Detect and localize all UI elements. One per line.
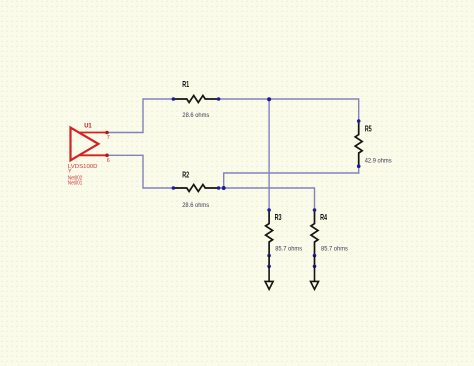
resistor R3 — [266, 210, 273, 256]
op-amp U1 triangle — [71, 128, 99, 161]
wire R4 to ground — [314, 256, 316, 267]
svg-text:R5: R5 — [365, 125, 372, 134]
wire pin7 to bend — [108, 132, 143, 134]
junction node R1 net — [267, 97, 271, 101]
svg-text:LVDS100D: LVDS100D — [68, 164, 98, 170]
wire vertical down to R2 level — [142, 155, 144, 189]
R4 ground node dot — [313, 265, 317, 269]
wire drop to R2 right junction — [223, 172, 225, 188]
wire R5 bottom horizontal left — [224, 172, 360, 174]
svg-text:85.7 ohms: 85.7 ohms — [321, 246, 348, 253]
svg-text:R3: R3 — [275, 213, 282, 222]
svg-text:R1: R1 — [182, 80, 189, 89]
R5 bottom pin dot — [357, 164, 361, 168]
wire down to R4 top — [314, 187, 316, 210]
svg-text:R2: R2 — [182, 171, 189, 180]
R2 right pin dot — [217, 186, 221, 190]
R5 top pin dot — [357, 119, 361, 123]
R1 right pin dot — [217, 97, 221, 101]
wire to R2 left pin — [143, 187, 173, 189]
wire R2 right to R4 drop — [219, 187, 315, 189]
U1 pin 6 lead — [80, 154, 107, 156]
R2 left pin dot — [172, 186, 176, 190]
svg-text:Net001: Net001 — [68, 181, 82, 187]
svg-text:28.6 ohms: 28.6 ohms — [182, 112, 209, 119]
ground symbol for R3 — [265, 266, 273, 289]
junction node R2-R5-R4 — [222, 186, 226, 190]
wire R5 bottom down — [358, 166, 360, 174]
svg-text:28.6 ohms: 28.6 ohms — [182, 202, 209, 209]
svg-text:6: 6 — [107, 158, 110, 164]
svg-text:Y: Y — [68, 168, 72, 174]
wire junction down to R3 top — [268, 99, 270, 210]
resistor R4 — [311, 210, 318, 256]
resistor R5 — [355, 121, 362, 166]
wire R1 right to top-right corner — [219, 98, 359, 100]
svg-text:R4: R4 — [320, 213, 327, 222]
resistor R2 — [173, 185, 218, 192]
R3 ground node dot — [267, 265, 271, 269]
R4 bottom pin dot — [313, 254, 317, 258]
U1 pin 6 dot — [105, 154, 109, 158]
svg-text:7: 7 — [107, 135, 110, 141]
R1 left pin dot — [172, 97, 176, 101]
U1 pin 7 dot — [105, 131, 109, 135]
R3 top pin dot — [267, 208, 271, 212]
wire to R1 left pin — [143, 98, 173, 100]
ground symbol for R4 — [311, 266, 319, 289]
svg-text:42.9 ohms: 42.9 ohms — [365, 157, 392, 164]
wire R3 to ground — [268, 256, 270, 267]
R3 bottom pin dot — [267, 254, 271, 258]
R4 top pin dot — [313, 208, 317, 212]
wire down to R5 top — [358, 98, 360, 121]
wire vertical up to R1 level — [142, 98, 144, 133]
svg-text:U1: U1 — [84, 123, 92, 130]
wire pin6 to bend — [108, 154, 143, 156]
U1 pin 7 lead — [79, 132, 107, 134]
svg-text:85.7 ohms: 85.7 ohms — [275, 246, 302, 253]
resistor R1 — [173, 96, 218, 103]
